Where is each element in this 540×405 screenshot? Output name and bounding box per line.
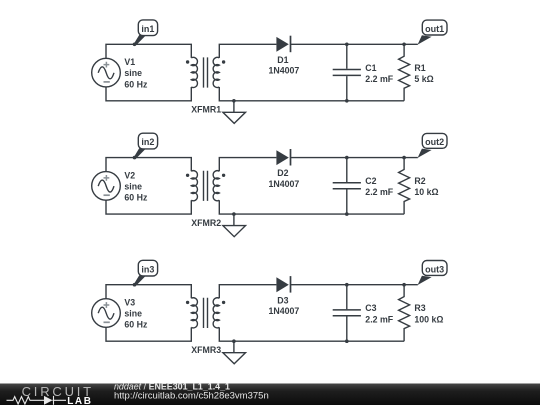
- node: C1 top junction dot: [345, 43, 349, 47]
- node: R1 top junction dot: [402, 43, 406, 47]
- node in3: junction dot: [133, 283, 137, 287]
- svg-text:D1: D1: [277, 55, 288, 65]
- transformer XFMR3 primary winding: [191, 298, 197, 328]
- svg-text:LAB: LAB: [67, 396, 92, 405]
- node: C3 top junction dot: [345, 283, 349, 287]
- node: C1 bottom junction dot: [345, 99, 349, 103]
- wire: diode D2 cathode to out2 node: [291, 157, 418, 159]
- svg-text:2.2 mF: 2.2 mF: [365, 314, 393, 324]
- wire: V1 top lead to XFMR1 primary top: [106, 44, 191, 58]
- transformer XFMR1 secondary winding: [213, 57, 219, 87]
- svg-text:sine: sine: [124, 309, 142, 319]
- diode D2: [276, 149, 290, 166]
- transformer XFMR1 primary winding: [191, 57, 197, 87]
- svg-text:out3: out3: [425, 264, 444, 274]
- wire: XFMR1 secondary bottom rail: [219, 87, 404, 101]
- svg-text:sine: sine: [124, 182, 142, 192]
- node: R3 top junction dot: [402, 283, 406, 287]
- svg-text:10 kΩ: 10 kΩ: [414, 187, 438, 197]
- transformer XFMR2 secondary phase dot: [222, 174, 225, 177]
- diode D3: [276, 276, 290, 293]
- wire: XFMR3 secondary bottom rail: [219, 327, 404, 341]
- transformer XFMR1 primary phase dot: [186, 60, 189, 63]
- svg-text:D2: D2: [277, 168, 288, 178]
- wire: XFMR1 secondary top to diode D1 anode: [219, 44, 276, 58]
- svg-text:R2: R2: [414, 176, 425, 186]
- wire: V1 bottom lead to XFMR1 primary bottom: [106, 87, 191, 101]
- svg-text:D3: D3: [277, 295, 288, 305]
- wire: V2 bottom lead to XFMR2 primary bottom: [106, 200, 191, 214]
- flag in2: [134, 133, 158, 158]
- ground (XFMR3 secondary / load return): [223, 339, 246, 363]
- capacitor C1: [333, 44, 361, 101]
- svg-text:V1: V1: [124, 57, 135, 67]
- svg-text:in3: in3: [141, 264, 154, 274]
- transformer XFMR3 primary phase dot: [186, 301, 189, 304]
- voltage source V1 (sine, 60 Hz): [92, 58, 121, 87]
- svg-text:R1: R1: [414, 63, 425, 73]
- svg-text:1N4007: 1N4007: [268, 306, 299, 316]
- wire: XFMR3 secondary top to diode D3 anode: [219, 285, 276, 299]
- ground (XFMR1 secondary / load return): [223, 99, 246, 123]
- svg-text:in2: in2: [141, 137, 154, 147]
- transformer XFMR3 secondary winding: [213, 298, 219, 328]
- flag in3: [134, 260, 158, 285]
- node: C2 bottom junction dot: [345, 212, 349, 216]
- svg-text:5 kΩ: 5 kΩ: [414, 74, 433, 84]
- wire: V3 top lead to XFMR3 primary top: [106, 285, 191, 299]
- diode D1: [276, 36, 290, 53]
- svg-text:100 kΩ: 100 kΩ: [414, 314, 443, 324]
- flag out2: [418, 133, 447, 158]
- capacitor C3: [333, 285, 361, 342]
- transformer XFMR2 primary phase dot: [186, 174, 189, 177]
- svg-text:out2: out2: [425, 137, 444, 147]
- svg-text:C3: C3: [365, 303, 376, 313]
- svg-text:1N4007: 1N4007: [268, 179, 299, 189]
- svg-text:V2: V2: [124, 171, 135, 181]
- CircuitLab logo circuit glyph (wire, resistor zigzag, diode): [7, 396, 67, 405]
- node: C2 top junction dot: [345, 156, 349, 160]
- svg-text:2.2 mF: 2.2 mF: [365, 74, 393, 84]
- flag out3: [418, 261, 447, 286]
- resistor R3: [399, 285, 410, 342]
- node: R2 top junction dot: [402, 156, 406, 160]
- transformer XFMR1 secondary phase dot: [222, 60, 225, 63]
- svg-text:in1: in1: [141, 24, 154, 34]
- svg-text:1N4007: 1N4007: [268, 66, 299, 76]
- svg-text:60 Hz: 60 Hz: [124, 79, 148, 89]
- transformer XFMR3 core: [204, 298, 208, 328]
- wire: diode D1 cathode to out1 node: [291, 43, 418, 45]
- node in2: junction dot: [133, 156, 137, 160]
- voltage source V2 (sine, 60 Hz): [92, 172, 121, 201]
- capacitor C2: [333, 158, 361, 215]
- svg-text:XFMR2: XFMR2: [191, 218, 221, 228]
- voltage source V3 (sine, 60 Hz): [92, 299, 121, 328]
- svg-text:60 Hz: 60 Hz: [124, 320, 148, 330]
- wire: V3 bottom lead to XFMR3 primary bottom: [106, 327, 191, 341]
- transformer XFMR2 secondary winding: [213, 171, 219, 201]
- svg-text:out1: out1: [425, 24, 444, 34]
- resistor R1: [399, 44, 410, 101]
- svg-text:C1: C1: [365, 63, 376, 73]
- ground (XFMR2 secondary / load return): [223, 212, 246, 236]
- node in1: junction dot: [133, 43, 137, 47]
- flag in1: [134, 20, 158, 45]
- transformer XFMR3 secondary phase dot: [222, 301, 225, 304]
- svg-text:XFMR3: XFMR3: [191, 345, 221, 355]
- svg-text:2.2 mF: 2.2 mF: [365, 187, 393, 197]
- transformer XFMR2 primary winding: [191, 171, 197, 201]
- wire: diode D3 cathode to out3 node: [291, 284, 418, 286]
- svg-text:http://circuitlab.com/c5h28e3v: http://circuitlab.com/c5h28e3vm375n: [114, 390, 269, 401]
- transformer XFMR1 core: [204, 57, 208, 87]
- node: C3 bottom junction dot: [345, 339, 349, 343]
- svg-text:V3: V3: [124, 298, 135, 308]
- flag out1: [418, 20, 447, 44]
- wire: XFMR2 secondary top to diode D2 anode: [219, 158, 276, 172]
- svg-text:sine: sine: [124, 68, 142, 78]
- svg-text:XFMR1: XFMR1: [191, 105, 221, 115]
- svg-text:C2: C2: [365, 176, 376, 186]
- wire: XFMR2 secondary bottom rail: [219, 200, 404, 214]
- resistor R2: [399, 158, 410, 215]
- wire: V2 top lead to XFMR2 primary top: [106, 158, 191, 172]
- svg-text:R3: R3: [414, 303, 425, 313]
- transformer XFMR2 core: [204, 171, 208, 201]
- svg-text:60 Hz: 60 Hz: [124, 193, 148, 203]
